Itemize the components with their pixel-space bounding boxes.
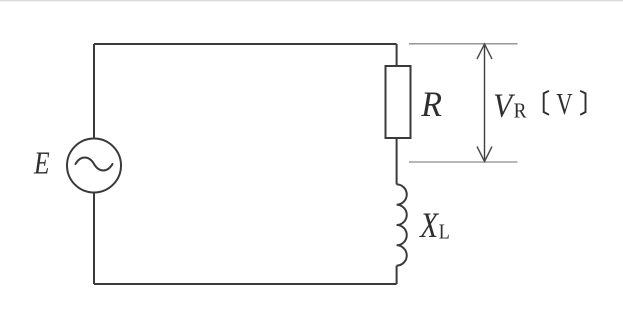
resistor R	[386, 66, 411, 138]
bracket left	[544, 91, 549, 115]
wire left upper	[93, 44, 95, 139]
top page border	[0, 0, 623, 1]
svg-text:R: R	[420, 84, 442, 124]
svg-text:E: E	[33, 146, 50, 181]
arrow head down	[477, 147, 492, 162]
inductor XL coil	[397, 184, 407, 265]
tick line bottom	[409, 161, 518, 163]
ac source sine	[76, 158, 113, 171]
wire bottom	[94, 283, 397, 285]
wire top	[94, 43, 397, 45]
svg-text:L: L	[439, 221, 450, 244]
arrow head up	[477, 44, 492, 59]
wire right middle	[396, 138, 398, 184]
tick line top	[409, 43, 518, 45]
wire right upper	[396, 44, 398, 66]
bracket right	[580, 91, 585, 115]
ac source E circle	[67, 139, 121, 193]
arrow VR shaft	[484, 44, 486, 162]
svg-text:V: V	[493, 87, 515, 125]
svg-text:V: V	[556, 87, 573, 121]
svg-text:X: X	[418, 206, 440, 245]
wire left lower	[93, 193, 95, 285]
svg-text:R: R	[514, 100, 527, 123]
wire right lower	[396, 266, 398, 284]
